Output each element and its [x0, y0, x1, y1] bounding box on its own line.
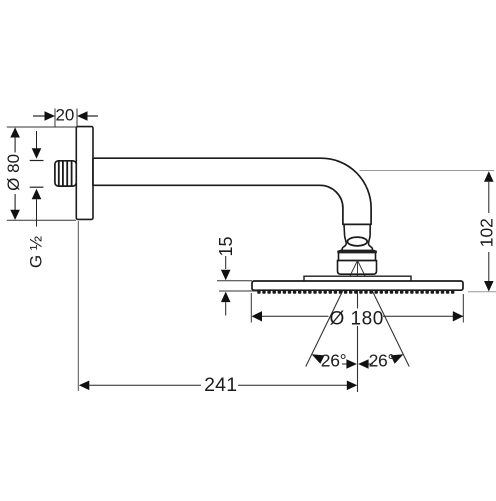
dim 26 left	[312, 351, 357, 371]
dim 20	[33, 106, 98, 128]
wall plate	[76, 127, 93, 220]
connector upper block	[339, 250, 376, 260]
connector top dark band	[337, 250, 377, 253]
dim 241	[78, 221, 357, 396]
svg-text:15: 15	[216, 236, 236, 256]
svg-text:102: 102	[477, 218, 496, 247]
dim Ø180	[251, 293, 463, 329]
dim 15	[216, 236, 257, 315]
svg-text:Ø 180: Ø 180	[330, 308, 384, 329]
dim Ø80	[4, 127, 76, 220]
svg-text:26°: 26°	[369, 351, 395, 371]
pipe section below seam	[342, 225, 372, 252]
spray angle lines	[306, 261, 409, 393]
ball joint ellipse	[347, 237, 367, 246]
svg-text:26°: 26°	[321, 351, 347, 371]
svg-text:241: 241	[204, 374, 237, 396]
svg-text:Ø 80: Ø 80	[4, 154, 23, 191]
svg-text:20: 20	[55, 106, 74, 125]
shower head disc	[252, 281, 463, 290]
svg-text:G ½: G ½	[26, 236, 45, 268]
connector lower block	[338, 261, 377, 275]
dim G 1/2	[26, 131, 45, 268]
shower arm	[93, 158, 371, 224]
spray origin lines inside block	[351, 261, 364, 275]
head step plate	[304, 276, 411, 281]
thread G1/2	[55, 161, 76, 186]
dim 26 right	[358, 351, 403, 371]
nozzle teeth	[257, 290, 454, 294]
dim 102	[360, 171, 496, 292]
